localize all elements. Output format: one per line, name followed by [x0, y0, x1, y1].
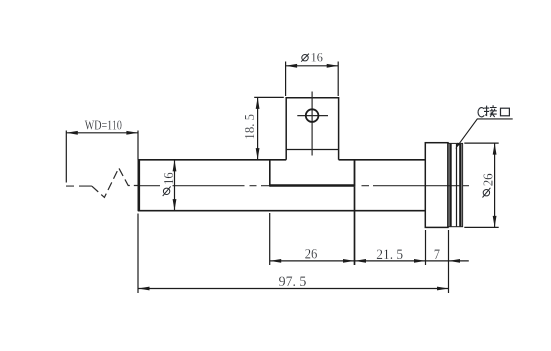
hole horizontal centerline: [297, 115, 328, 117]
hole vertical centerline: [311, 92, 313, 156]
svg-text:18. 5: 18. 5: [242, 114, 257, 140]
extension line x=448.5 below flange: [448, 230, 450, 293]
svg-text:26: 26: [305, 246, 318, 262]
extension line x=354.5 (thick, cube edge to dims): [354, 187, 356, 265]
dim 97.5 arrows: [138, 287, 449, 291]
dim phi26 arrows: [493, 143, 497, 227]
dim line 97.5: [138, 288, 449, 290]
dim phi26 extension top: [464, 142, 498, 144]
C-interface label C: [478, 108, 484, 117]
top port block: [286, 98, 338, 160]
dim 18.5 arrows: [256, 97, 260, 159]
block internal seam line: [286, 149, 338, 151]
cube body right edge: [354, 160, 356, 187]
dim 18.5 line: [257, 97, 259, 159]
extension line x=269.7 below tube: [269, 213, 271, 265]
svg-text:97. 5: 97. 5: [279, 274, 307, 290]
stub thick groove line right: [459, 144, 461, 227]
C-mount stub outline: [448, 143, 463, 226]
dim phi16 top extension lines: [286, 62, 339, 97]
dim phi16 tube arrows: [173, 160, 177, 211]
flange main ring: [425, 143, 448, 228]
dim phi26 symbol: [483, 188, 491, 198]
dim WD=110 arrows: [66, 131, 138, 135]
dim phi16 top arrows: [286, 64, 339, 68]
dim WD=110 line: [66, 132, 138, 134]
centerline horizontal main axis: [66, 185, 469, 187]
glyph kou (口): [501, 108, 510, 116]
tube bottom edge: [138, 210, 425, 212]
dim WD=110 extension line left: [65, 131, 67, 183]
arrows at 269.7 / 354.5 / 425.5 / 448.5: [270, 259, 460, 263]
dim WD=110 extension line right / tube edge extension up: [137, 131, 139, 160]
dim phi16 top line: [286, 65, 339, 67]
cube bottom thick line on centerline: [270, 184, 355, 186]
dim line 26 / 21.5 / 7: [270, 260, 449, 262]
dim phi26 extension bottom: [464, 226, 498, 228]
stub thick groove line left: [449, 144, 451, 227]
cube body left edge: [269, 160, 271, 187]
tube left end edge (thick): [138, 159, 141, 211]
dim phi26 line: [494, 143, 496, 227]
tube top edge: [138, 159, 425, 161]
dim phi16 tube line: [174, 160, 176, 211]
dim phi16 tube symbol: [163, 186, 171, 196]
extension line x=425.5 below flange: [425, 230, 427, 265]
stub thin mid line: [456, 144, 458, 227]
svg-text:21. 5: 21. 5: [376, 247, 403, 263]
svg-text:16: 16: [162, 172, 176, 185]
dim phi16 top symbol: [301, 54, 309, 62]
C-interface leader line: [460, 119, 513, 143]
break line zigzag (left tube continuation): [92, 168, 138, 197]
hole circle: [306, 109, 319, 122]
extension line x=138 below tube: [137, 214, 139, 294]
svg-text:7: 7: [434, 246, 440, 262]
glyph jie (接): [484, 105, 497, 117]
svg-text:16: 16: [311, 50, 323, 64]
dim tail right of 7: [449, 260, 469, 262]
C-interface leader arrowhead: [455, 143, 460, 149]
svg-text:26: 26: [480, 173, 495, 186]
dim 18.5 extension line top: [254, 96, 284, 98]
svg-text:WD=110: WD=110: [85, 117, 122, 133]
